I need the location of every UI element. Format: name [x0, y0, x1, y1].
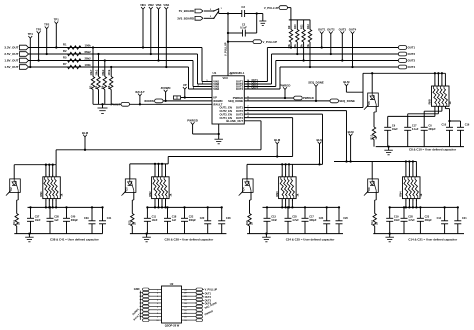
- svg-text:U1: U1: [213, 71, 217, 75]
- svg-text:SEQ_DONE: SEQ_DONE: [228, 99, 243, 103]
- net flag VIN1: [140, 3, 146, 48]
- block2 capacitor C18 1uF: [164, 206, 177, 233]
- svg-text:66k2: 66k2: [85, 50, 92, 54]
- svg-text:66k2: 66k2: [101, 69, 105, 75]
- svg-text:5V_BOARD: 5V_BOARD: [179, 9, 194, 13]
- block3 LED D4: [239, 179, 253, 196]
- resistor R9 pullup: [287, 20, 293, 49]
- block5 resistor R13: [371, 107, 379, 147]
- block1 wires network out: [45, 199, 57, 209]
- capacitor C3: [241, 5, 262, 17]
- connector J4 1.8V_OUT: [4, 58, 28, 63]
- svg-text:OUT3: OUT3: [339, 28, 347, 32]
- net flag OUT2: [327, 28, 335, 56]
- svg-text:10nF: 10nF: [394, 219, 400, 222]
- svg-text:ADM1186-1: ADM1186-1: [229, 71, 244, 75]
- svg-text:C14: C14: [437, 217, 442, 220]
- block4 capacitor C23 330pF: [417, 206, 432, 233]
- svg-text:2.5V_OUT: 2.5V_OUT: [4, 52, 18, 56]
- svg-text:BLM: BLM: [343, 80, 350, 84]
- svg-text:BLM: BLM: [82, 131, 89, 135]
- block4 ground: [385, 232, 394, 241]
- block4 resistor network RN4: [399, 175, 424, 202]
- block2 wire bottom rail: [130, 233, 227, 235]
- block5 capacitor C8: [421, 124, 436, 146]
- block5 top wire: [363, 72, 445, 74]
- svg-text:3.3V_OUT: 3.3V_OUT: [4, 46, 18, 50]
- block4 capacitor C19 10nF: [386, 206, 400, 233]
- block4 wires network feed: [405, 160, 417, 176]
- block2 capacitors C20 C28: [200, 206, 231, 233]
- block3 capacitor C13 10nF: [264, 206, 278, 233]
- block2 stub wire: [130, 157, 168, 164]
- svg-text:PWRGD: PWRGD: [187, 118, 198, 122]
- svg-text:1uF: 1uF: [172, 219, 177, 222]
- svg-text:RN4: RN4: [399, 191, 403, 197]
- block5 resistor network RN5: [428, 84, 453, 110]
- svg-text:RN1: RN1: [39, 191, 43, 197]
- net flag V_PULLUP top: [264, 6, 291, 20]
- block4 capacitors C14 C21: [437, 206, 468, 233]
- svg-text:3V3_BOARD: 3V3_BOARD: [177, 17, 194, 21]
- net flag /FAULT: [135, 90, 145, 106]
- resistor R12 pullup: [306, 20, 312, 68]
- block4 wires network out: [405, 199, 418, 209]
- svg-text:330pF: 330pF: [71, 219, 79, 222]
- svg-text:330pF: 330pF: [428, 128, 436, 131]
- block5 capacitor C17: [404, 124, 419, 146]
- svg-text:OUT2_EN: OUT2_EN: [220, 109, 232, 113]
- svg-text:R6: R6: [100, 85, 104, 89]
- wire BLANK to block1 bus: [244, 121, 261, 150]
- svg-text:VIN2: VIN2: [148, 3, 154, 7]
- block5 wire net out 4: [445, 106, 460, 127]
- block5 capacitor C9: [384, 124, 398, 146]
- connector J2 3.3V_OUT: [4, 45, 28, 50]
- block5 bottom rail: [376, 146, 464, 148]
- block5 capacitors C10 C16: [442, 123, 470, 146]
- resistor R7 100k: [63, 62, 91, 69]
- block1 capacitors C39 C41: [84, 206, 112, 233]
- svg-text:28k2: 28k2: [95, 69, 99, 75]
- svg-text:R10: R10: [293, 24, 297, 29]
- svg-text:C21: C21: [462, 217, 467, 220]
- svg-text:OUT4: OUT4: [236, 87, 244, 91]
- svg-text:1uF: 1uF: [54, 219, 59, 222]
- wire /FAULT rail: [93, 103, 212, 105]
- svg-text:0.1uF: 0.1uF: [240, 26, 247, 30]
- net flag OUT1: [318, 28, 326, 49]
- svg-text:TP3: TP3: [36, 27, 42, 31]
- net flag BLM 2: [274, 138, 281, 158]
- block3 wires network out: [281, 199, 293, 209]
- block2 LED D3: [122, 179, 136, 196]
- net flag SEQ_DONE: [308, 80, 324, 102]
- wire bus A: [56, 149, 261, 151]
- block1 capacitor C37 10nF: [27, 206, 41, 233]
- jumper JP1 select: [210, 8, 223, 19]
- svg-text:UP: UP: [213, 96, 217, 100]
- svg-text:C24: C24: [319, 217, 324, 220]
- svg-text:BLM: BLM: [274, 138, 281, 142]
- svg-text:/DOWN: /DOWN: [161, 86, 171, 90]
- port V_PULLUP mid: [227, 40, 277, 44]
- block3 wire stub: [0, 0, 1, 1]
- block2 capacitor C22 330pF: [181, 206, 196, 233]
- block3 capacitor C17 330pF: [302, 206, 317, 233]
- net flag VIN4: [163, 3, 169, 68]
- block1 capacitor C38 1uF: [47, 206, 60, 233]
- svg-text:R8: R8: [107, 85, 111, 89]
- svg-text:VIN3: VIN3: [156, 3, 162, 7]
- svg-text:VIN4: VIN4: [163, 3, 169, 7]
- block2 wire led feed: [129, 164, 131, 179]
- block4 capacitor C28 4.7uF: [401, 206, 416, 233]
- resistor R6 66k2: [100, 59, 106, 104]
- block3 wires network feed: [281, 163, 292, 177]
- block1 ground: [25, 232, 34, 241]
- wire U1 OUT3 to row: [244, 61, 398, 87]
- wire PWRGD: [244, 96, 313, 100]
- svg-text:QSOP-28 W: QSOP-28 W: [165, 324, 180, 328]
- net flag OUT3: [339, 28, 347, 62]
- U2 left pins: [143, 288, 162, 321]
- capacitor C2 0.1uF: [227, 12, 258, 36]
- block2 capacitor C11 10nF: [144, 206, 158, 233]
- svg-text:C39: C39: [84, 217, 89, 220]
- svg-text:R7: R7: [63, 62, 67, 66]
- U2 right pins: [182, 288, 203, 321]
- svg-text:GND: GND: [134, 287, 140, 291]
- svg-text:OUT4: OUT4: [252, 86, 259, 89]
- block5 wire net out 2: [408, 106, 439, 127]
- svg-text:C8 & C10 = User defined capaci: C8 & C10 = User defined capacitor: [409, 148, 457, 152]
- wire U1 OUT4 to row: [244, 67, 398, 89]
- block1 capacitor C40 330pF: [63, 206, 78, 233]
- connector OUT4: [398, 65, 415, 69]
- net flag UP: [183, 83, 187, 98]
- wire row4 1.5V_OUT to U1 VIN4: [29, 67, 213, 89]
- svg-text:0.1uF: 0.1uF: [412, 128, 419, 131]
- svg-text:OUT3_EN: OUT3_EN: [220, 112, 232, 116]
- svg-text:V_PULLUP: V_PULLUP: [205, 288, 218, 291]
- svg-text:330pF: 330pF: [309, 219, 317, 222]
- resistor R3 13k7: [89, 46, 95, 104]
- block3 resistor network RN3: [275, 175, 300, 202]
- svg-text:OUT4: OUT4: [408, 65, 416, 69]
- svg-text:C20: C20: [200, 217, 205, 220]
- svg-text:TP4: TP4: [28, 32, 34, 36]
- block4 note: [408, 237, 458, 241]
- block2 resistor R15: [129, 192, 137, 233]
- resistor R10 pullup: [293, 20, 299, 55]
- svg-text:OUT1: OUT1: [318, 28, 326, 32]
- svg-text:R4: R4: [94, 85, 98, 89]
- connector OUT3: [398, 59, 415, 63]
- test point flag TP3: [36, 27, 42, 61]
- svg-text:1.8V_OUT: 1.8V_OUT: [4, 59, 18, 63]
- wire row3 1.8V_OUT to U1 VIN3: [29, 61, 213, 87]
- net flag OUT4: [349, 28, 357, 69]
- wire OUT3_EN to block3: [244, 114, 322, 164]
- svg-text:VIN4: VIN4: [213, 87, 219, 91]
- wire bus B: [168, 156, 292, 158]
- svg-text:PWRGD: PWRGD: [280, 83, 291, 87]
- resistor R4 28k2: [94, 53, 100, 104]
- U1 enable pin names: [220, 106, 244, 123]
- svg-text:100k: 100k: [85, 43, 92, 47]
- connector OUT2: [398, 52, 415, 56]
- svg-text:BLM: BLM: [348, 130, 355, 134]
- svg-text:C28: C28: [226, 217, 231, 220]
- svg-text:100k: 100k: [85, 63, 92, 67]
- svg-text:R1: R1: [63, 43, 67, 47]
- svg-text:V_PULLUP: V_PULLUP: [264, 6, 279, 10]
- U1 pin numbers: [193, 80, 250, 118]
- block1 stub wire: [14, 150, 56, 165]
- net flag BLM 1: [82, 131, 89, 151]
- block3 wire led feed: [246, 164, 248, 179]
- net flag VIN2: [148, 3, 154, 55]
- jumper JP2 on UP: [173, 96, 212, 99]
- block3 wire mid rail: [263, 206, 340, 208]
- block2 wires network out: [154, 199, 167, 209]
- svg-text:OUT2: OUT2: [327, 28, 335, 32]
- resistor R8 100k: [107, 66, 113, 104]
- svg-text:10uF: 10uF: [392, 128, 398, 131]
- block5 wire net out 3: [424, 106, 442, 127]
- svg-text:TP2: TP2: [44, 23, 50, 27]
- U2 left GND ties: [134, 287, 143, 320]
- svg-text:/FAULT: /FAULT: [135, 90, 145, 94]
- wire V_PULLUP to U1 VCC: [224, 14, 234, 76]
- connector OUT1: [398, 46, 415, 50]
- block2 resistor network RN2: [148, 175, 173, 202]
- block4 resistor R17: [371, 192, 379, 233]
- svg-text:C38 & C41 = User defined capac: C38 & C41 = User defined capacitor: [50, 237, 100, 241]
- block1 wire bottom rail: [14, 233, 102, 235]
- svg-text:10nF: 10nF: [152, 219, 158, 222]
- block1 wire mid rail: [28, 206, 103, 208]
- svg-text:R11: R11: [299, 24, 303, 29]
- svg-text:R5: R5: [63, 56, 67, 60]
- block2 ground: [142, 232, 151, 241]
- block2 wire stub: [0, 0, 1, 1]
- svg-text:VIN1: VIN1: [140, 3, 146, 7]
- wire U1 OUT2 to row: [244, 54, 398, 84]
- svg-text:C16: C16: [465, 123, 470, 126]
- block3 capacitors C24 C26: [319, 206, 349, 233]
- block1 LED D2: [6, 179, 20, 196]
- svg-text:SEQ_DONE: SEQ_DONE: [339, 99, 355, 103]
- block3 resistor R16: [246, 192, 254, 233]
- block1 wire led feed: [13, 165, 15, 179]
- block2 wires network feed: [154, 163, 166, 177]
- block4 wire stub: [0, 0, 1, 1]
- svg-text:100k: 100k: [107, 69, 111, 75]
- block3 note: [286, 237, 336, 241]
- block1 note: [50, 237, 100, 241]
- net flag PWRGD: [280, 83, 291, 99]
- wire row2 2.5V_OUT to U1 VIN2: [29, 54, 213, 84]
- svg-text:C10: C10: [442, 123, 447, 126]
- U2 pin numbers: [156, 289, 187, 322]
- wire OUT1_EN to block5: [244, 73, 363, 107]
- svg-text:BLM: BLM: [316, 138, 323, 142]
- U2 box: [162, 282, 182, 328]
- test point flag TP1: [54, 18, 60, 49]
- connector 5V_BOARD: [179, 9, 214, 13]
- svg-text:330pF: 330pF: [425, 219, 433, 222]
- svg-text:OUT2: OUT2: [236, 109, 244, 113]
- block1 wire stub: [0, 0, 1, 1]
- net flag PWRGD tie: [187, 118, 218, 134]
- block5 wires network feed: [434, 72, 446, 86]
- svg-text:BLANK_OUT: BLANK_OUT: [226, 119, 243, 123]
- connector J3 2.5V_OUT: [4, 52, 28, 57]
- block3 capacitor C25 4.7uF: [285, 206, 300, 233]
- svg-text:R9: R9: [287, 25, 291, 29]
- connector J5 1.5V_OUT: [4, 65, 28, 70]
- svg-text:R12: R12: [306, 24, 310, 29]
- block3 wire bottom rail: [247, 233, 343, 235]
- svg-text:OUT3: OUT3: [408, 59, 416, 63]
- svg-text:OUT3: OUT3: [236, 112, 244, 116]
- svg-text:V_PULLUP: V_PULLUP: [224, 42, 228, 56]
- svg-text:SEQ_DONE: SEQ_DONE: [308, 80, 324, 84]
- wire stub block4: [334, 160, 417, 162]
- block1 resistor R14: [13, 192, 21, 233]
- svg-text:C20 & C28 = User defined capac: C20 & C28 = User defined capacitor: [165, 237, 215, 241]
- U2 right net labels: [203, 288, 218, 316]
- block5 wire net out 1: [388, 106, 435, 127]
- svg-text:TP1: TP1: [54, 18, 60, 22]
- block2 note: [165, 237, 215, 241]
- wire V_PULLUP node: [219, 12, 242, 14]
- wire stub block3: [247, 163, 323, 165]
- net flag BLM 4: [348, 130, 355, 163]
- resistor R2 66k2: [63, 49, 91, 56]
- svg-text:/FAULT: /FAULT: [111, 103, 121, 107]
- ground under U1: [214, 124, 223, 144]
- svg-text:C3: C3: [241, 5, 245, 9]
- block1 wires network feed: [45, 164, 56, 177]
- test point flag TP2: [44, 23, 50, 55]
- svg-text:C24 & C25 = User defined capac: C24 & C25 = User defined capacitor: [286, 237, 336, 241]
- svg-text:RN2: RN2: [148, 191, 152, 197]
- resistor R1 100k: [63, 43, 91, 50]
- wire U1 OUT1 to row: [244, 48, 398, 82]
- svg-text:/DOWN: /DOWN: [144, 99, 154, 103]
- block5 LED D5: [364, 73, 378, 109]
- resistor R11 pullup: [299, 20, 305, 62]
- net flag VIN3: [156, 3, 162, 61]
- svg-text:C26: C26: [343, 217, 348, 220]
- svg-text:4.7uF: 4.7uF: [408, 219, 415, 222]
- U1 right pin names: [228, 80, 243, 103]
- block1 resistor network RN1: [39, 175, 64, 202]
- wire SEQ_DONE: [244, 99, 355, 103]
- svg-text:/DOWN: /DOWN: [213, 99, 222, 103]
- svg-text:R3: R3: [89, 85, 93, 89]
- svg-text:RN5: RN5: [428, 99, 432, 105]
- svg-text:OUT2: OUT2: [408, 52, 416, 56]
- wire pullup rail: [289, 19, 310, 21]
- test point flag TP4: [28, 32, 34, 68]
- svg-text:PWRGD: PWRGD: [303, 96, 314, 100]
- wire row1 3.3V_OUT to U1 VIN1: [29, 48, 213, 82]
- ground under pulldowns: [98, 103, 108, 113]
- net flag /DOWN: [161, 86, 171, 102]
- svg-text:C14 & C21 = User defined capac: C14 & C21 = User defined capacitor: [408, 237, 458, 241]
- block5 note: [409, 148, 457, 152]
- port /FAULT: [111, 102, 130, 106]
- ground at C3: [259, 14, 266, 26]
- svg-text:OUT4: OUT4: [349, 28, 357, 32]
- svg-text:1.5V_OUT: 1.5V_OUT: [4, 65, 18, 69]
- svg-text:UP: UP: [183, 83, 187, 87]
- op-amp U1 ADM1186-1 box: [212, 71, 245, 124]
- svg-text:C41: C41: [107, 217, 112, 220]
- block3 ground: [262, 232, 271, 241]
- svg-text:330pF: 330pF: [189, 219, 197, 222]
- net flag BLM 3: [316, 138, 323, 166]
- svg-text:4.7uF: 4.7uF: [292, 219, 299, 222]
- svg-text:RN3: RN3: [275, 191, 279, 197]
- block4 wire mid rail: [390, 206, 458, 208]
- svg-text:10nF: 10nF: [35, 219, 41, 222]
- svg-text:V_PULLUP: V_PULLUP: [263, 40, 278, 44]
- block4 LED D6: [364, 179, 378, 196]
- block4 wire bottom rail: [373, 233, 464, 235]
- svg-text:VCC: VCC: [223, 76, 229, 80]
- block5 ground: [384, 145, 393, 154]
- connector 3V3_BOARD: [177, 16, 214, 20]
- resistor R5 28k2: [63, 56, 91, 63]
- svg-text:10nF: 10nF: [271, 219, 277, 222]
- svg-text:13k7: 13k7: [89, 69, 93, 75]
- net flag BLM 5: [343, 80, 363, 92]
- svg-text:OUT1: OUT1: [408, 46, 416, 50]
- svg-text:U2: U2: [170, 282, 174, 286]
- U2 left net labels: [132, 308, 141, 322]
- wire OUT4_EN to block2: [244, 118, 292, 157]
- svg-text:R2: R2: [63, 49, 67, 53]
- block2 wire mid rail: [147, 206, 221, 208]
- svg-text:28k2: 28k2: [85, 56, 92, 60]
- wire OUT2_EN to block4: [244, 111, 346, 162]
- U1 left pin names: [213, 76, 228, 106]
- block4 wire led feed: [371, 162, 373, 180]
- port /DOWN: [144, 99, 212, 103]
